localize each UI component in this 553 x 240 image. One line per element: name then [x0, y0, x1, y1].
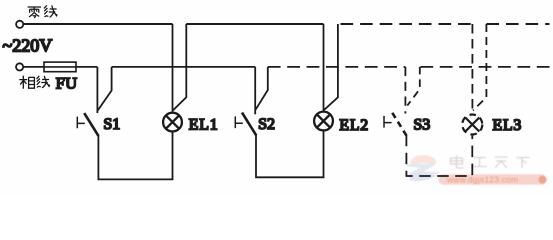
wire: EL2 right tap — [324, 24, 338, 110]
wire: S3 right tap (dashed) — [407, 67, 420, 106]
wire: loop S1-EL1 — [98, 132, 172, 180]
svg-text:S3: S3 — [413, 117, 430, 134]
node: EL3 left tap (dashed) — [471, 24, 473, 114]
neutral bus segment A — [23, 23, 172, 25]
wire: EL1 right tap — [173, 24, 186, 110]
wire: S1 right tap — [98, 67, 112, 111]
live bus S1 to S2 — [112, 66, 256, 68]
neutral bus segment B — [186, 23, 323, 25]
node: S2 left tap — [254, 67, 256, 114]
live bus dashed S2 to S3 — [268, 66, 406, 68]
live wire to fuse — [23, 66, 44, 68]
switch S3 blade (dashed) — [392, 113, 406, 136]
svg-text:S2: S2 — [258, 116, 275, 133]
neutral terminal — [16, 21, 23, 28]
wire: loop S3-EL3 (dashed) — [406, 135, 472, 176]
wire: S2 right tap — [256, 67, 268, 110]
wire: loop S2-EL2 — [256, 131, 324, 178]
watermark logo — [407, 155, 440, 181]
lamp EL3 (dashed) — [462, 115, 482, 135]
neutral bus dashed tail — [486, 23, 549, 25]
live terminal — [16, 63, 23, 70]
switch S1 handle — [77, 117, 85, 129]
svg-text:EL3: EL3 — [493, 117, 523, 134]
node: EL2 left tap — [323, 24, 325, 112]
node: S1 left tap / contact lead — [96, 67, 98, 113]
node: S3 left tap (dashed) — [404, 67, 406, 114]
watermark text dian-gong-tian-xia — [451, 156, 530, 169]
neutral bus dashed segment C — [341, 23, 473, 25]
wire: EL3 right tap (dashed) — [473, 24, 486, 110]
watermark url pill — [439, 174, 547, 184]
node: EL1 left tap — [172, 24, 174, 113]
svg-text:~220V: ~220V — [3, 35, 53, 55]
switch S2 blade — [242, 113, 256, 136]
fuse FU — [44, 62, 76, 72]
label xiang-xian (live wire) — [19, 76, 49, 89]
live bus dashed tail — [420, 66, 549, 68]
live wire fuse to S1 — [76, 66, 97, 68]
lamp EL1 — [163, 113, 182, 132]
svg-text:FU: FU — [56, 73, 78, 92]
lamp EL2 — [314, 112, 333, 131]
svg-text:S1: S1 — [103, 116, 120, 133]
label ling-xian (neutral wire) — [28, 5, 58, 18]
svg-text:EL2: EL2 — [339, 117, 369, 134]
switch S1 blade — [84, 113, 98, 136]
svg-text:EL1: EL1 — [189, 116, 219, 133]
switch S3 handle — [384, 116, 392, 128]
switch S2 handle — [235, 116, 243, 128]
